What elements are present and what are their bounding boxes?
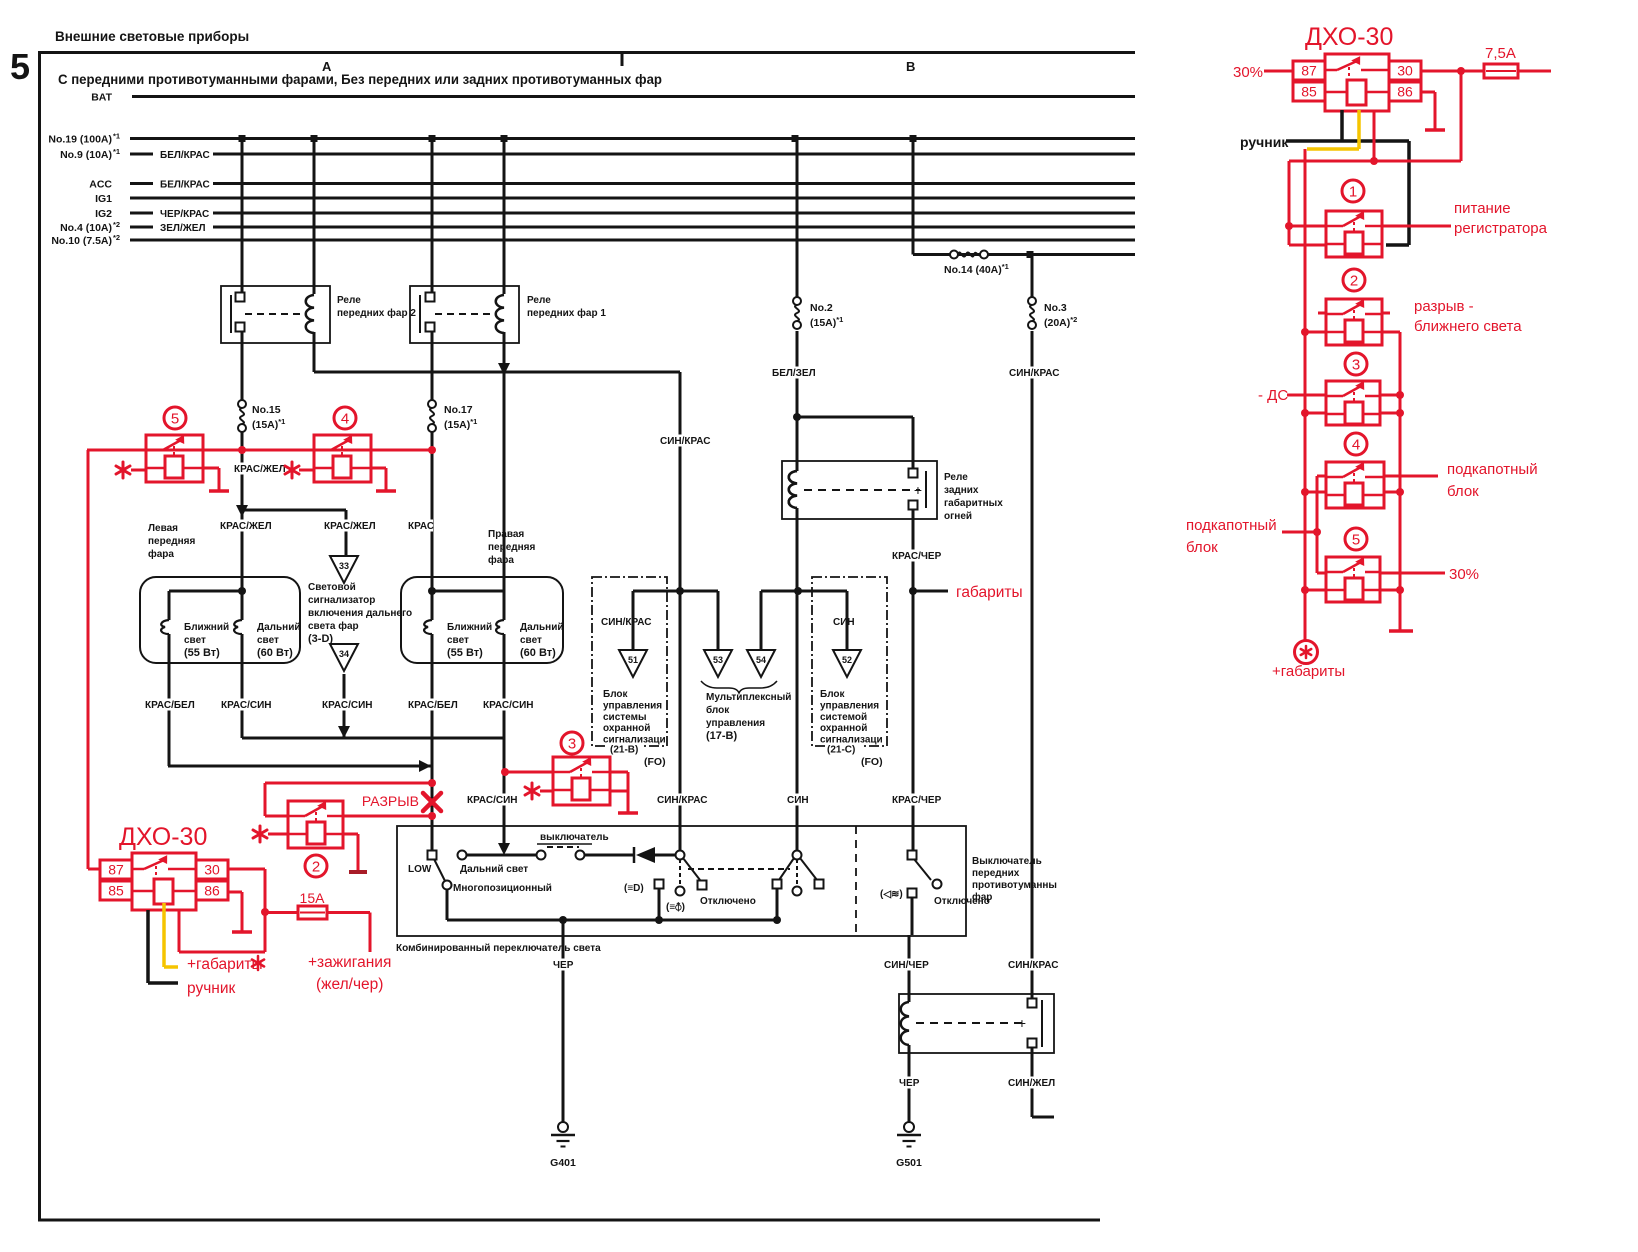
svg-text:(15A)*1: (15A)*1 <box>444 417 477 431</box>
svg-text:34: 34 <box>339 649 349 659</box>
svg-text:охранной: охранной <box>603 723 650 734</box>
svg-text:системой: системой <box>820 712 867 723</box>
svg-text:Правая: Правая <box>488 529 524 540</box>
svg-text:охранной: охранной <box>820 723 867 734</box>
svg-text:(55 Вт): (55 Вт) <box>447 647 483 659</box>
svg-text:86: 86 <box>1397 84 1413 100</box>
svg-text:свет: свет <box>257 635 279 646</box>
svg-text:системы: системы <box>603 712 647 723</box>
svg-text:G501: G501 <box>896 1157 922 1169</box>
svg-text:противотуманны: противотуманны <box>972 880 1057 891</box>
svg-text:Реле: Реле <box>944 472 968 483</box>
svg-text:86: 86 <box>204 883 220 899</box>
svg-text:BAT: BAT <box>91 92 112 104</box>
svg-text:БЕЛ/КРАС: БЕЛ/КРАС <box>160 150 210 161</box>
svg-text:Внешние световые приборы: Внешние световые приборы <box>55 29 249 44</box>
svg-text:Дальний: Дальний <box>257 622 301 633</box>
svg-text:передних фар 2: передних фар 2 <box>337 307 416 319</box>
svg-text:БЕЛ/ЗЕЛ: БЕЛ/ЗЕЛ <box>772 368 816 379</box>
svg-text:БЕЛ/КРАС: БЕЛ/КРАС <box>160 180 210 191</box>
svg-text:(60 Вт): (60 Вт) <box>520 647 556 659</box>
svg-text:подкапотный: подкапотный <box>1447 461 1538 478</box>
svg-text:СИН: СИН <box>787 795 809 806</box>
svg-text:No.2: No.2 <box>810 302 833 314</box>
svg-text:СИН/ЖЕЛ: СИН/ЖЕЛ <box>1008 1078 1055 1089</box>
svg-text:питание: питание <box>1454 200 1511 217</box>
svg-text:LOW: LOW <box>408 864 432 875</box>
svg-text:КРАС/ЖЕЛ: КРАС/ЖЕЛ <box>220 521 272 532</box>
svg-text:КРАС/СИН: КРАС/СИН <box>221 700 272 711</box>
svg-text:СИН/КРАС: СИН/КРАС <box>1008 960 1059 971</box>
svg-text:*2: *2 <box>113 220 120 229</box>
svg-text:1: 1 <box>1349 184 1357 201</box>
svg-text:передняя: передняя <box>148 536 195 547</box>
svg-text:(жел/чер): (жел/чер) <box>316 976 383 993</box>
svg-text:ДХО-30: ДХО-30 <box>119 823 207 851</box>
svg-text:СИН/КРАС: СИН/КРАС <box>1009 368 1060 379</box>
svg-text:2: 2 <box>1350 273 1358 290</box>
svg-text:No.10 (7.5A): No.10 (7.5A) <box>51 235 112 247</box>
svg-text:выключатель: выключатель <box>540 832 609 843</box>
svg-text:КРАС/СИН: КРАС/СИН <box>467 795 518 806</box>
svg-text:3: 3 <box>1352 357 1360 374</box>
svg-text:87: 87 <box>108 862 124 878</box>
svg-text:Ближний: Ближний <box>447 622 492 633</box>
svg-text:*1: *1 <box>113 132 120 141</box>
svg-text:2: 2 <box>312 859 320 876</box>
svg-text:87: 87 <box>1301 63 1317 79</box>
svg-text:(15A)*1: (15A)*1 <box>252 417 285 431</box>
svg-text:Мультиплексный: Мультиплексный <box>706 692 791 703</box>
svg-text:(≡D): (≡D) <box>624 883 644 894</box>
svg-text:Дальний: Дальний <box>520 622 564 633</box>
svg-text:габариты: габариты <box>956 584 1023 601</box>
svg-text:управления: управления <box>820 700 879 711</box>
svg-text:свет: свет <box>447 635 469 646</box>
svg-text:СИН/КРАС: СИН/КРАС <box>660 436 711 447</box>
svg-text:33: 33 <box>339 561 349 571</box>
svg-text:С передними противотуманными ф: С передними противотуманными фарами, Без… <box>58 71 662 87</box>
svg-text:ближнего света: ближнего света <box>1414 318 1522 335</box>
svg-text:передних фар 1: передних фар 1 <box>527 307 606 319</box>
svg-text:РАЗРЫВ: РАЗРЫВ <box>362 793 419 809</box>
svg-text:фара: фара <box>148 548 174 560</box>
svg-text:*1: *1 <box>113 147 120 156</box>
svg-text:передняя: передняя <box>488 542 535 553</box>
svg-text:4: 4 <box>341 411 349 428</box>
svg-text:30%: 30% <box>1449 566 1479 583</box>
svg-text:СИН/ЧЕР: СИН/ЧЕР <box>884 960 929 971</box>
svg-text:(21-В): (21-В) <box>610 745 638 756</box>
svg-text:КРАС/БЕЛ: КРАС/БЕЛ <box>145 700 195 711</box>
svg-text:ЧЕР/КРАС: ЧЕР/КРАС <box>160 209 209 220</box>
svg-text:30%: 30% <box>1233 64 1263 81</box>
svg-text:53: 53 <box>713 655 723 665</box>
svg-text:5: 5 <box>1352 532 1360 549</box>
svg-text:габаритных: габаритных <box>944 497 1003 509</box>
svg-text:ЧЕР: ЧЕР <box>899 1078 920 1089</box>
svg-text:- ДС: - ДС <box>1258 387 1288 404</box>
svg-text:IG2: IG2 <box>95 208 112 220</box>
svg-text:No.19 (100A): No.19 (100A) <box>48 134 112 146</box>
svg-text:No.4 (10A): No.4 (10A) <box>60 222 112 234</box>
svg-text:+: + <box>914 482 922 498</box>
svg-text:No.3: No.3 <box>1044 302 1067 314</box>
svg-text:СИН/КРАС: СИН/КРАС <box>601 617 652 628</box>
svg-text:(60 Вт): (60 Вт) <box>257 647 293 659</box>
svg-text:No.14 (40A)*1: No.14 (40A)*1 <box>944 262 1009 276</box>
svg-text:подкапотный: подкапотный <box>1186 517 1277 534</box>
svg-text:(FO): (FO) <box>861 756 883 768</box>
svg-text:85: 85 <box>1301 84 1317 100</box>
svg-text:85: 85 <box>108 883 124 899</box>
svg-text:A: A <box>322 59 332 74</box>
svg-text:Реле: Реле <box>527 295 551 306</box>
svg-text:54: 54 <box>756 655 766 665</box>
svg-text:No.9 (10A): No.9 (10A) <box>60 149 112 161</box>
svg-text:Многопозиционный: Многопозиционный <box>453 883 552 894</box>
svg-text:ACC: ACC <box>89 179 112 191</box>
svg-text:Блок: Блок <box>820 689 846 700</box>
svg-text:Отключено: Отключено <box>700 896 756 907</box>
svg-text:No.15: No.15 <box>252 404 281 416</box>
svg-text:включения дальнего: включения дальнего <box>308 608 412 619</box>
svg-text:КРАС/ЖЕЛ: КРАС/ЖЕЛ <box>324 521 376 532</box>
svg-text:КРАС: КРАС <box>408 521 434 532</box>
svg-text:Левая: Левая <box>148 523 178 534</box>
svg-text:Выключатель: Выключатель <box>972 856 1042 867</box>
svg-text:(55 Вт): (55 Вт) <box>184 647 220 659</box>
svg-text:Реле: Реле <box>337 295 361 306</box>
svg-text:СИН: СИН <box>833 617 855 628</box>
svg-text:регистратора: регистратора <box>1454 220 1548 237</box>
svg-text:+габариты: +габариты <box>1272 663 1345 680</box>
svg-text:No.17: No.17 <box>444 404 473 416</box>
svg-text:огней: огней <box>944 511 972 522</box>
svg-text:ЧЕР: ЧЕР <box>553 960 574 971</box>
svg-text:(≡⦽): (≡⦽) <box>666 901 685 913</box>
svg-text:+зажигания: +зажигания <box>308 954 391 971</box>
svg-text:(FO): (FO) <box>644 756 666 768</box>
svg-text:управления: управления <box>706 718 765 729</box>
svg-text:4: 4 <box>1352 437 1360 454</box>
svg-text:КРАС/ЧЕР: КРАС/ЧЕР <box>892 551 942 562</box>
svg-text:(17-В): (17-В) <box>706 730 738 742</box>
svg-text:КРАС/БЕЛ: КРАС/БЕЛ <box>408 700 458 711</box>
svg-text:G401: G401 <box>550 1157 576 1169</box>
svg-text:7,5A: 7,5A <box>1485 45 1516 62</box>
svg-text:B: B <box>906 59 915 74</box>
svg-text:51: 51 <box>628 655 638 665</box>
svg-text:(21-С): (21-С) <box>827 745 855 756</box>
svg-text:30: 30 <box>204 862 220 878</box>
svg-text:Дальний свет: Дальний свет <box>460 864 528 875</box>
svg-text:света фар: света фар <box>308 620 359 632</box>
svg-text:блок: блок <box>1186 539 1218 556</box>
svg-text:сигнализатор: сигнализатор <box>308 595 375 606</box>
svg-text:ручник: ручник <box>187 980 235 997</box>
svg-text:5: 5 <box>10 46 30 87</box>
svg-text:разрыв -: разрыв - <box>1414 298 1474 315</box>
svg-text:блок: блок <box>1447 483 1479 500</box>
svg-text:Ближний: Ближний <box>184 622 229 633</box>
svg-text:(15A)*1: (15A)*1 <box>810 315 843 329</box>
svg-text:КРАС/ЧЕР: КРАС/ЧЕР <box>892 795 942 806</box>
svg-text:(20A)*2: (20A)*2 <box>1044 315 1077 329</box>
svg-text:3: 3 <box>568 736 576 753</box>
svg-text:5: 5 <box>171 411 179 428</box>
svg-text:КРАС/СИН: КРАС/СИН <box>322 700 373 711</box>
svg-text:30: 30 <box>1397 63 1413 79</box>
svg-text:IG1: IG1 <box>95 193 112 205</box>
svg-text:свет: свет <box>520 635 542 646</box>
svg-text:*2: *2 <box>113 233 120 242</box>
svg-text:свет: свет <box>184 635 206 646</box>
svg-text:передних: передних <box>972 868 1020 879</box>
svg-text:управления: управления <box>603 700 662 711</box>
svg-text:+: + <box>1018 1015 1026 1031</box>
svg-text:фара: фара <box>488 554 514 566</box>
svg-text:блок: блок <box>706 704 730 716</box>
svg-text:Блок: Блок <box>603 689 629 700</box>
svg-text:Комбинированный переключатель: Комбинированный переключатель света <box>396 942 601 954</box>
svg-text:15A: 15A <box>300 890 326 906</box>
svg-text:(◁≋): (◁≋) <box>880 889 903 900</box>
svg-text:фар: фар <box>972 891 992 903</box>
svg-text:ДХО-30: ДХО-30 <box>1305 23 1393 51</box>
svg-text:52: 52 <box>842 655 852 665</box>
svg-text:Световой: Световой <box>308 582 356 593</box>
svg-text:ЗЕЛ/ЖЕЛ: ЗЕЛ/ЖЕЛ <box>160 223 205 234</box>
svg-text:задних: задних <box>944 485 979 496</box>
svg-text:КРАС/ЖЕЛ: КРАС/ЖЕЛ <box>234 464 286 475</box>
svg-text:(3-D): (3-D) <box>308 633 333 645</box>
svg-text:ручник: ручник <box>1240 134 1289 150</box>
svg-text:КРАС/СИН: КРАС/СИН <box>483 700 534 711</box>
svg-text:СИН/КРАС: СИН/КРАС <box>657 795 708 806</box>
